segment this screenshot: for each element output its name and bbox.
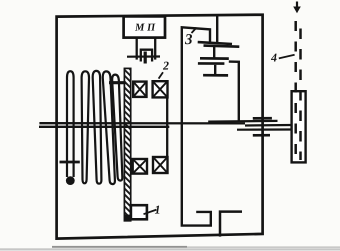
brush bar [144,52,147,64]
svg-text:3: 3 [184,32,193,48]
МП control unit box [124,16,165,37]
dashed column right [299,29,302,161]
coil connector wire [166,97,168,157]
svg-text:4: 4 [270,50,277,64]
svg-text:М: М [134,22,145,33]
svg-text:П: П [146,22,156,33]
clutch step wire to output [229,62,239,121]
wire left leg from МП [136,38,138,60]
svg-text:2: 2 [162,58,169,72]
outer housing box [57,15,263,239]
clutch plate bar3 [200,57,229,60]
input shaft lower line [39,126,169,128]
label 1 leader [144,210,157,215]
label 3 leader [192,28,197,33]
coil upper right X-box [153,81,168,97]
spring coil 3 [103,71,115,184]
clutch plate bar2 [204,46,240,47]
coil lower right X-box [153,157,168,173]
spring end plate at armature [109,81,126,84]
slip-ring shaft wire [127,55,160,57]
spring coil 1 [82,71,89,183]
clutch plate bar5 [203,74,228,77]
bearing cap lower on wall [253,134,270,137]
coil upper left X-box [133,82,146,97]
spring rod with ball end [67,71,74,177]
output shaft top line [208,120,277,123]
coil lower left X-box [133,159,147,174]
scanner noise bottom band [0,248,340,250]
dashed column left [294,21,297,160]
follower rectangle item 4 [292,91,306,162]
clutch stem1 [213,47,215,59]
spring coil 4 [112,75,122,181]
output shaft mid line [245,124,292,127]
armature bar item 1 (crosshatched) [124,68,130,220]
label 2 leader [159,72,163,78]
armature bar bottom cap [124,215,131,222]
label 4 leader [279,55,295,59]
rod collar crossbar [60,161,80,164]
spring coil 2 [93,71,102,184]
wire right leg from МП [154,38,156,60]
output shaft bottom line [237,128,292,130]
slider box item 1 [131,205,147,219]
clutch plate bar1 [198,42,232,44]
clutch stem2 [214,65,216,74]
bearing cap upper on wall [253,117,272,120]
input shaft upper line [39,122,245,125]
clutch housing bracket [182,27,211,225]
clutch feed wire from top [216,16,218,43]
gamma bracket bottom [220,212,242,237]
slip-ring brush housing [141,50,152,62]
svg-text:1: 1 [154,202,160,216]
rod ball tip [66,176,75,185]
clutch plate bar4 [198,62,225,65]
down arrow [293,2,301,14]
